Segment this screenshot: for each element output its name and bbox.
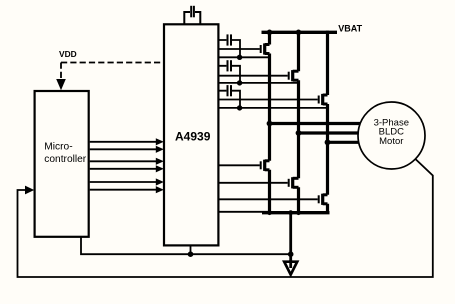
- node junction cap C: [237, 105, 242, 110]
- wire VDD dashed vertical: [60, 63, 62, 80]
- wire motor feedback to micro-controller: [18, 159, 433, 277]
- wire gate high-side C: [218, 99, 317, 101]
- svg-text:Micro-: Micro-: [44, 141, 72, 152]
- svg-text:VDD: VDD: [59, 49, 77, 59]
- node junction rail A: [267, 30, 273, 36]
- svg-text:VBAT: VBAT: [338, 24, 362, 34]
- wire micro-controller ground: [81, 237, 291, 254]
- transistor Q1 high-side A: [261, 43, 270, 54]
- node junction phase C: [325, 139, 331, 145]
- wire phase A to motor: [270, 122, 363, 125]
- wire phase B vertical leg: [297, 31, 300, 213]
- wire arrow 6: [90, 186, 164, 193]
- transistor Q3 high-side C: [319, 94, 328, 105]
- capacitor C1 charge pump on top of A4939: [184, 6, 200, 25]
- transistor Q6 low-side C: [319, 194, 328, 205]
- net VBAT rail: [262, 31, 338, 34]
- node junction phase B: [296, 130, 302, 136]
- motor M1 3-phase BLDC: [358, 102, 425, 169]
- wire gate high-side A: [218, 48, 259, 50]
- svg-text:A4939: A4939: [175, 129, 211, 143]
- wire A4939 ground stub: [190, 245, 192, 254]
- feedback arrowhead into micro-controller: [25, 186, 34, 195]
- wire phase A vertical leg: [268, 31, 271, 213]
- wire ground descent: [289, 213, 292, 264]
- node junction cap A: [237, 55, 242, 60]
- wire phase B to motor: [299, 131, 361, 134]
- wire arrow 3: [90, 158, 164, 165]
- wire gate low-side B: [218, 182, 287, 184]
- VDD arrowhead into micro-controller: [56, 79, 66, 90]
- wire phase C to motor: [328, 141, 361, 144]
- wire gate low-side A: [218, 164, 259, 166]
- wire sense phase C: [218, 107, 327, 109]
- net ground rail bottom of bridge: [262, 211, 330, 214]
- ground symbol stem overlap: [289, 260, 292, 268]
- ground symbol: [284, 262, 297, 275]
- wire arrow 2: [90, 146, 164, 153]
- node junction rail ground B: [296, 210, 301, 215]
- node junction A4939 ground: [188, 251, 194, 257]
- wire arrow 4: [90, 165, 164, 172]
- wire sense phase A: [218, 56, 269, 58]
- capacitor C4 bootstrap phase C: [218, 85, 240, 108]
- micro-controller U2: [35, 91, 89, 237]
- node junction ground rail: [288, 210, 293, 215]
- wire gate high-side B: [218, 75, 287, 77]
- wire phase C vertical leg: [326, 31, 329, 213]
- wire arrow 1: [90, 138, 164, 145]
- wire arrow 5: [90, 178, 164, 185]
- transistor Q5 low-side B: [289, 177, 299, 188]
- wire VDD dashed horizontal: [61, 62, 164, 64]
- svg-text:Motor: Motor: [379, 136, 403, 147]
- node junction rail B: [296, 30, 302, 36]
- node junction phase A: [267, 121, 273, 127]
- capacitor C2 bootstrap phase A: [218, 34, 240, 57]
- transistor Q2 high-side B: [289, 70, 299, 81]
- gate driver U1 A4939: [164, 24, 218, 245]
- capacitor C3 bootstrap phase B: [218, 60, 240, 83]
- node junction rail ground A: [267, 210, 272, 215]
- wire LSS sense to ground rail: [218, 211, 268, 213]
- wire sense phase B: [218, 82, 298, 84]
- transistor Q4 low-side A: [261, 160, 270, 171]
- wire gate low-side C: [218, 198, 317, 200]
- node junction cap B: [237, 80, 242, 85]
- node junction ground line: [288, 251, 294, 257]
- svg-text:controller: controller: [44, 154, 87, 165]
